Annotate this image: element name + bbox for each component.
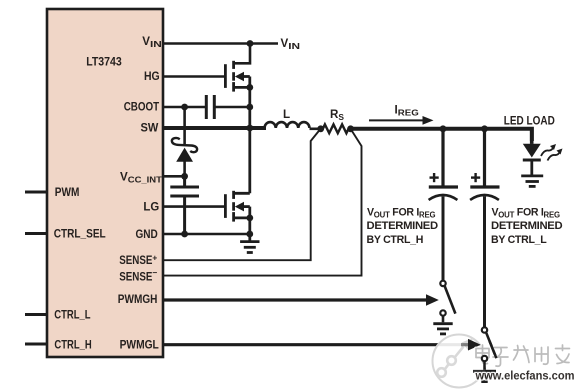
wire output rail	[351, 129, 532, 141]
wire PWMGL arrow redrawn over watermark	[461, 339, 481, 351]
wire LG gate	[163, 205, 226, 208]
capacitor CBOOT	[206, 95, 214, 119]
wire CBOOT junction down to diode	[183, 107, 186, 144]
svg-text:L: L	[283, 108, 290, 121]
node GND junction at C_VCC	[181, 231, 188, 238]
svg-text:PWMGH: PWMGH	[118, 293, 158, 306]
transistor Q2 low-side NMOS	[225, 128, 249, 241]
capacitor C2	[470, 129, 499, 328]
plus sign C2	[471, 173, 480, 182]
svg-text:BY CTRL_H: BY CTRL_H	[367, 234, 424, 246]
plus sign C1	[430, 173, 439, 182]
wire PWMGH	[163, 298, 428, 301]
svg-text:CBOOT: CBOOT	[124, 101, 160, 114]
svg-text:VOUT FOR IREG: VOUT FOR IREG	[492, 207, 560, 220]
svg-text:GND: GND	[136, 228, 158, 241]
wire CBOOT	[163, 106, 205, 109]
switch S2	[482, 327, 497, 370]
wire VIN to Q1 drain	[234, 44, 250, 64]
capacitor C1	[429, 129, 458, 281]
node VCC_INT junction	[181, 173, 188, 180]
ground below LED	[521, 176, 543, 187]
ground below S1	[433, 324, 452, 334]
switch S2 overdraw above watermark	[473, 341, 496, 371]
svg-text:DETERMINED: DETERMINED	[491, 220, 563, 232]
node SW junction at Q1	[246, 125, 253, 132]
arrow IREG	[369, 119, 425, 121]
ground below S2	[473, 371, 496, 381]
svg-text:HG: HG	[144, 70, 160, 83]
wire CTRL_L stub	[25, 313, 47, 316]
wire PWMGL	[163, 343, 470, 346]
svg-text:SW: SW	[141, 122, 159, 135]
svg-text:CTRL_L: CTRL_L	[54, 308, 90, 321]
wire inductor to RS	[310, 128, 323, 131]
resistor RS	[321, 124, 351, 133]
wire SENSE-	[163, 130, 362, 276]
svg-text:VIN: VIN	[281, 37, 301, 51]
wire SENSE+	[163, 130, 320, 261]
watermark chinese text	[476, 345, 570, 366]
watermark logo disc	[432, 334, 487, 389]
svg-text:SENSE−: SENSE−	[119, 267, 157, 283]
wire VCC_INT	[163, 175, 185, 178]
svg-text:SENSE+: SENSE+	[119, 252, 157, 267]
ground below Q2	[240, 242, 259, 253]
node RS left	[317, 125, 324, 132]
svg-text:www.elecfans.com: www.elecfans.com	[475, 369, 575, 383]
wire GND	[163, 233, 250, 236]
wire PWM stub	[25, 191, 47, 194]
svg-text:PWMGL: PWMGL	[120, 338, 159, 351]
svg-text:LED LOAD: LED LOAD	[504, 114, 555, 127]
inductor L1	[265, 122, 310, 128]
IC U1 LT3743 body	[47, 9, 163, 357]
wire CTRL_SEL stub	[25, 232, 47, 235]
node Q2 source junction	[246, 215, 253, 222]
wire SW rail	[163, 126, 266, 130]
svg-text:CTRL_SEL: CTRL_SEL	[54, 228, 106, 241]
svg-text:RS: RS	[330, 108, 344, 122]
svg-text:PWM: PWM	[55, 186, 80, 199]
node RS right	[347, 125, 354, 132]
LED D2	[523, 129, 541, 175]
transistor Q1 high-side NMOS	[225, 61, 249, 128]
light emission arrows	[541, 144, 563, 161]
wire CTRL_H stub	[25, 343, 47, 346]
wire VIN	[163, 42, 278, 45]
svg-text:BY CTRL_L: BY CTRL_L	[491, 234, 547, 246]
wire HG gate	[163, 75, 226, 78]
annotation VOUT for CTRL_H	[367, 207, 439, 247]
node CBOOT junction	[181, 104, 188, 111]
svg-text:VOUT FOR IREG: VOUT FOR IREG	[367, 207, 435, 220]
svg-text:IREG: IREG	[395, 104, 419, 118]
diode D1 schottky	[172, 138, 197, 176]
node cap C2 junction	[481, 125, 488, 132]
svg-text:LT3743: LT3743	[86, 55, 122, 68]
node CBOOT-SW junction	[246, 104, 253, 111]
annotation VOUT for CTRL_L	[491, 207, 563, 247]
svg-text:DETERMINED: DETERMINED	[367, 220, 439, 232]
node Q1 source junction	[246, 84, 253, 91]
capacitor C_VCC	[170, 176, 199, 234]
switch S1	[440, 281, 455, 323]
node VIN junction	[247, 40, 254, 47]
node cap C1 junction	[440, 125, 447, 132]
svg-text:CTRL_H: CTRL_H	[54, 338, 91, 351]
node GND junction at Q2	[246, 231, 253, 238]
svg-text:LG: LG	[143, 200, 159, 213]
wire CBOOT cap to SW node	[216, 106, 250, 109]
